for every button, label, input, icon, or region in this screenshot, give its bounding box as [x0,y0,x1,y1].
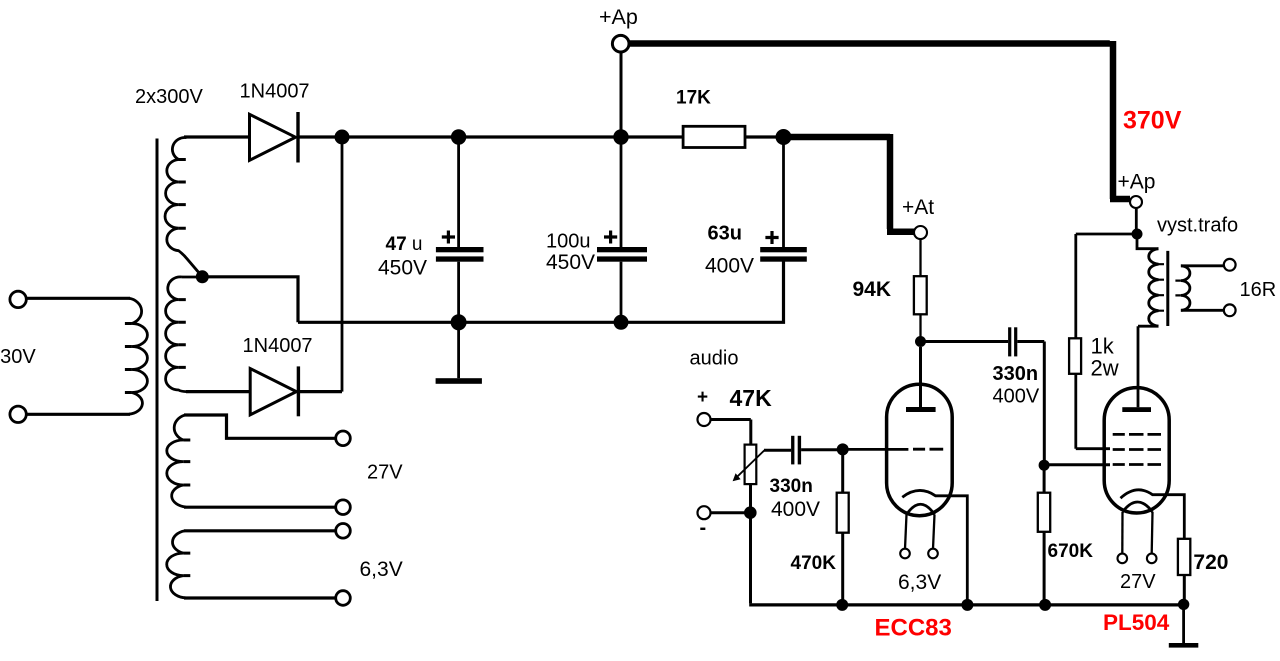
wire C5 to grid node [801,448,843,451]
tube ECC83 envelope [887,384,953,516]
transformer TR1 primary terminal top [10,291,26,307]
wire 6,3V bottom [184,596,336,599]
capacitor C5 330n plates [791,436,801,465]
svg-text:27V: 27V [367,462,403,484]
svg-text:370V: 370V [1123,107,1182,135]
svg-text:+At: +At [902,196,934,219]
capacitor C2 100u plates [597,247,647,262]
wire +Ap to primary node [1135,208,1138,234]
svg-text:230V: 230V [0,346,36,368]
svg-text:+Ap: +Ap [1118,171,1156,194]
terminal 16R top [1224,259,1236,271]
svg-text:47 u: 47 u [386,234,423,255]
node junction C2 bottom [614,315,629,330]
capacitor C3 63u plates [760,247,807,262]
svg-text:2x300V: 2x300V [135,86,203,108]
resistor 720 [1178,539,1190,575]
transformer OT primary exit to anode [1138,326,1159,407]
tube ECC83 grid dashes [913,448,943,451]
capacitor C2 100u leg top [620,137,623,248]
tube ECC83 cathode [902,490,967,604]
svg-text:-: - [700,517,707,539]
wire 27V bottom [184,506,336,509]
node junction C1 top [451,129,466,144]
svg-text:94K: 94K [853,278,892,301]
wire wiper to C5 [764,449,791,452]
node junction OT primary top [1132,229,1143,240]
capacitor C4 330n plates [1008,327,1017,356]
node junction ECC83 cathode bus [961,599,973,611]
tube ECC83 heater pin left [905,515,907,549]
transformer TR1 secondary upper ticks [179,160,186,229]
svg-text:100u: 100u [546,231,591,253]
wire D2 cathode to tie line [300,390,342,393]
wire top bus [300,135,684,138]
resistor 470K leg bottom [841,533,844,605]
node center tap junction [196,270,209,283]
svg-text:450V: 450V [546,251,595,274]
svg-text:6,3V: 6,3V [898,571,941,594]
node junction C2 top [613,129,628,144]
wire OT secondary top [1181,264,1224,267]
resistor 94K [914,276,927,314]
wire ECC83 grid lead [843,448,909,451]
capacitor C3 polarity plus [765,231,778,244]
node junction 470K bus [836,599,848,611]
node junction C3 top [776,129,792,145]
node junction 670K bus [1039,599,1051,611]
tube ECC83 heater pin right [933,515,935,549]
wire primary node to 1k branch [1076,234,1137,338]
svg-text:400V: 400V [993,386,1040,408]
capacitor C3 63u leg top [782,137,785,248]
svg-text:PL504: PL504 [1103,610,1170,635]
terminal audio minus [698,506,711,519]
wire 1k to PL504 g2 [1076,374,1110,449]
capacitor C2 leg bottom [620,262,623,323]
wire OT secondary bottom [1181,309,1224,312]
node junction PL504 cathode bus [1178,599,1189,610]
diode D1 cathode bar [296,112,299,163]
svg-text:audio: audio [690,348,739,370]
resistor 670K [1038,493,1050,532]
resistor 470K [837,493,849,533]
wire 17K to C3 node [745,135,784,138]
potentiometer 47K body [745,445,757,485]
tube PL504 grid dashes row1 [1113,433,1161,436]
resistor 670K leg bottom [1043,532,1046,605]
potentiometer 47K arrowhead [733,473,741,481]
ground power supply stem [457,322,460,378]
diode D1 1N4007 [250,114,296,160]
tube ECC83 heater dome [907,504,935,514]
node junction PL504 grid [1039,460,1050,471]
terminal 16R bottom [1224,304,1236,316]
transformer TR1 primary winding 230V [129,298,147,414]
wire center tap to bottom bus [209,277,299,323]
svg-text:17K: 17K [676,88,711,109]
wire [27,413,130,416]
resistor 720 leg bottom [1183,575,1186,604]
terminal 27V bottom [336,500,351,515]
tube PL504 heater pin circle right [1147,554,1157,564]
transformer OT vyst.trafo primary entry [1137,234,1159,249]
svg-text:ECC83: ECC83 [875,615,952,642]
capacitor C2 polarity plus [604,231,617,244]
terminal 6,3V bottom [336,591,351,606]
capacitor C1 leg bottom [457,262,460,323]
wire grid lead PL504 g1 [1044,463,1110,466]
ground output stage bar [1169,643,1199,648]
wire 27V top [184,415,336,438]
terminal +At [914,226,927,239]
wire center tap to lower winding [182,276,202,279]
tube PL504 envelope [1104,388,1169,513]
wire winding to diode D2 [186,390,250,393]
svg-text:16R: 16R [1240,279,1277,301]
terminal +Ap top [612,35,629,52]
tube PL504 heater pin right [1151,512,1154,554]
svg-text:27V: 27V [1120,571,1156,593]
wire winding to diode D1 [184,135,250,138]
terminal +Ap output stage [1130,196,1142,208]
ground power supply bar [436,378,482,384]
wire pot bottom to ground bus [749,484,752,603]
svg-text:1N4007: 1N4007 [243,335,313,357]
transformer OT core [1166,251,1169,326]
wire C4 to PL504 grid [1017,342,1044,463]
transformer TR1 winding 6,3V [167,531,186,598]
tube ECC83 heater pin circle left [900,549,910,559]
transformer OT primary winding [1149,249,1159,327]
transformer TR1 secondary winding 2x300V lower [166,277,186,392]
svg-text:330n: 330n [770,476,813,497]
terminal 6,3V top [336,524,351,539]
svg-text:400V: 400V [771,498,820,521]
node junction ECC83 anode [915,336,926,347]
tube PL504 anode plate [1122,407,1151,412]
svg-text:63u: 63u [708,223,742,245]
tube PL504 heater dome [1123,502,1153,512]
svg-text:1N4007: 1N4007 [240,81,310,103]
tube PL504 heater pin circle left [1118,554,1128,564]
wire 6,3V top [184,529,336,532]
wire 94K to anode node [919,314,921,341]
resistor 470K leg top [841,449,844,492]
tube PL504 grid dashes row3 [1113,463,1161,466]
svg-text:400V: 400V [705,255,754,278]
svg-text:330n: 330n [993,363,1039,385]
wire anode node to C4 [921,340,1009,343]
transformer TR1 primary winding ticks [125,324,132,393]
wire audio plus to pot [711,420,751,445]
transformer TR1 winding 27V [167,415,186,507]
svg-text:450V: 450V [378,256,427,279]
wire +At to 94K [919,239,921,276]
resistor 1k 2w [1069,338,1081,374]
wire thick B+ run to output stage [629,41,1130,199]
svg-text:470K: 470K [791,553,837,574]
terminal 27V top [336,431,351,446]
node junction pot bottom [744,506,757,519]
svg-text:47K: 47K [730,385,773,411]
svg-text:2w: 2w [1091,356,1119,381]
wire +Ap terminal drop [620,52,623,137]
diode D2 cathode bar [297,366,300,416]
tube ECC83 anode lead [919,347,922,407]
transformer TR1 secondary winding 2x300V upper [165,138,199,274]
transformer OT secondary winding [1181,266,1190,311]
wire bottom bus [298,261,784,322]
tube PL504 cathode [1121,490,1185,539]
tube PL504 heater pin left [1121,512,1123,554]
svg-text:vyst.trafo: vyst.trafo [1157,215,1238,237]
tube ECC83 heater pin circle right [928,549,938,559]
svg-text:670K: 670K [1048,541,1094,562]
potentiometer 47K wiper arrow [736,450,764,477]
node junction ECC83 grid [837,443,849,455]
tube ECC83 anode plate [906,407,936,412]
transformer TR1 6,3V ticks [183,553,190,576]
capacitor C1 47u plates [436,247,484,262]
resistor 670K leg top [1043,465,1046,493]
transformer OT secondary ticks [1175,281,1181,296]
wire audio minus to pot bottom [711,511,751,514]
diode D2 1N4007 [250,369,296,415]
capacitor C1 polarity plus [442,231,455,244]
ground output stage stem [1182,604,1185,643]
svg-text:6,3V: 6,3V [360,558,403,581]
capacitor C1 47u leg top [457,137,460,248]
transformer TR1 core [156,139,159,602]
wire bottom ground bus [749,603,1183,606]
transformer TR1 secondary lower ticks [179,300,186,368]
transformer TR1 primary terminal bottom [10,406,26,422]
node junction C1 bottom [451,314,467,330]
node junction D1 output [335,130,350,145]
wire [27,297,130,300]
resistor 17K [683,126,745,147]
terminal audio plus [698,413,711,426]
transformer OT primary ticks [1159,264,1165,311]
transformer TR1 27V ticks [183,440,190,485]
svg-text:+: + [697,387,708,408]
wire thick +At feed [784,134,915,232]
svg-text:720: 720 [1193,551,1228,574]
tube PL504 grid dashes row2 [1113,448,1161,451]
wire diode outputs tie [341,137,344,392]
svg-text:+Ap: +Ap [599,5,638,29]
